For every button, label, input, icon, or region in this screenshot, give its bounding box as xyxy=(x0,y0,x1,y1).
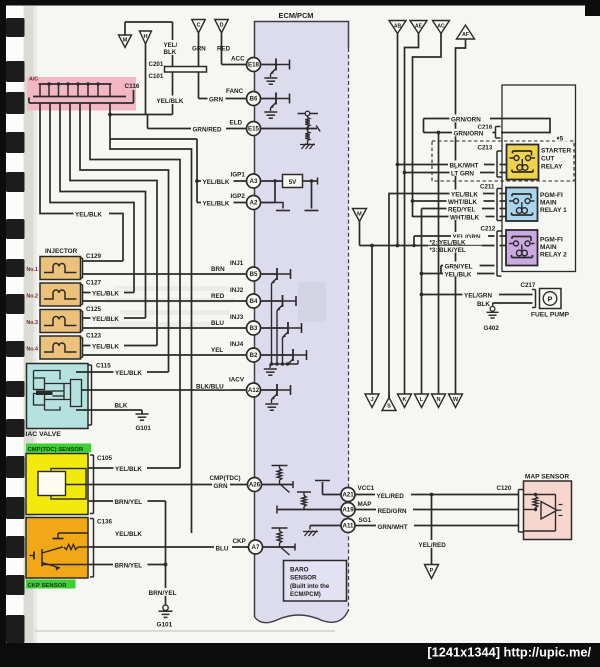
ECM/PCM panel xyxy=(255,11,349,623)
connector C116 (A/C junction, pink highlight) xyxy=(27,77,140,111)
label G101 (IAC) xyxy=(136,425,152,432)
triangle AE xyxy=(410,21,427,34)
svg-text:FUEL PUMP: FUEL PUMP xyxy=(531,312,570,319)
label CKP xyxy=(231,536,249,545)
label *2: YEL/BLK xyxy=(428,238,482,247)
svg-text:C105: C105 xyxy=(97,455,113,462)
svg-text:P: P xyxy=(430,568,434,574)
wire WHT/BLK2 relay1 xyxy=(413,216,507,218)
wire CKP BLU to A7 xyxy=(88,546,249,548)
svg-text:YEL: YEL xyxy=(211,347,223,354)
label YEL/BLK C123 xyxy=(91,342,125,351)
svg-text:BLK/WHT: BLK/WHT xyxy=(450,162,479,169)
svg-text:C: C xyxy=(196,23,200,29)
label LT GRN xyxy=(450,169,481,178)
wire YEL/BLK C116 pin7 to CKP sensor xyxy=(110,103,192,533)
label IGP2 xyxy=(231,193,246,200)
pin A3 xyxy=(247,174,261,188)
label BLK/WHT xyxy=(448,161,484,170)
wire YEL/RED branch to P xyxy=(431,495,433,565)
svg-text:YEL/BLK: YEL/BLK xyxy=(203,179,230,186)
svg-text:CKP SENSOR: CKP SENSOR xyxy=(28,583,68,589)
label GRN (FANC wire) xyxy=(208,95,226,104)
svg-text:FANC: FANC xyxy=(226,88,244,95)
wire YEL/BLK C116 pin6 to CMP sensor xyxy=(90,103,180,468)
label G402 xyxy=(484,325,500,332)
svg-text:YEL/BLK: YEL/BLK xyxy=(92,344,119,351)
scan border top bar xyxy=(0,0,600,6)
label IAC VALVE xyxy=(26,431,62,438)
label FUEL PUMP xyxy=(531,312,570,319)
wire GRN/YEL relay2 xyxy=(441,266,495,274)
wire YEL/BLK C116 pin5 to IAC valve xyxy=(80,103,169,372)
injector No.3 (C125) xyxy=(40,310,81,333)
wire RED/YEL relay1 xyxy=(422,208,507,210)
svg-text:C129: C129 xyxy=(86,253,102,260)
triangle M (mid) xyxy=(353,209,367,246)
wire CKP BRN/YEL xyxy=(88,564,166,566)
wire CMP GRN to A26 xyxy=(88,484,248,486)
label RED xyxy=(210,292,229,301)
label CKP SENSOR xyxy=(26,580,76,590)
svg-text:GRN/RED: GRN/RED xyxy=(193,127,222,134)
label INJECTOR xyxy=(45,248,78,255)
wire GRN/ORN upper loop xyxy=(424,119,551,133)
op ECM injector drivers (B5-B2) xyxy=(261,268,307,375)
svg-text:C101: C101 xyxy=(149,73,164,80)
scan top-right notch xyxy=(585,0,600,16)
svg-text:GRN: GRN xyxy=(209,97,223,104)
svg-text:INJ1: INJ1 xyxy=(230,260,244,267)
label BRN/YEL CKP xyxy=(113,561,148,570)
wire YEL/BLK C116 pin1 to No.1 injector xyxy=(40,103,123,261)
wire GRN/RED to E15 xyxy=(148,115,247,129)
label MAP xyxy=(358,501,372,508)
pin A7 xyxy=(249,540,263,554)
label YEL/BLK CKP xyxy=(114,529,148,538)
svg-text:A2: A2 xyxy=(250,200,258,207)
svg-text:BRN/YEL: BRN/YEL xyxy=(115,563,143,570)
svg-text:YEL/GRN: YEL/GRN xyxy=(464,292,492,299)
label YEL/BLK IGP1 xyxy=(201,177,234,186)
label C115 xyxy=(96,363,111,370)
label YEL/GRN fuel pump xyxy=(463,290,500,299)
svg-text:A12: A12 xyxy=(248,387,260,394)
label BRN xyxy=(210,265,229,274)
svg-text:No.1: No.1 xyxy=(26,267,38,273)
wire SG1 GRN/WHT xyxy=(355,525,519,527)
label INJ1 xyxy=(229,259,248,268)
svg-text:GRN/WHT: GRN/WHT xyxy=(378,524,408,531)
pin A19 xyxy=(341,503,355,517)
svg-text:G402: G402 xyxy=(484,325,500,332)
connector bracket C125 xyxy=(80,311,83,331)
wire YEL/GRN relay2 xyxy=(412,236,506,247)
svg-text:L: L xyxy=(420,397,424,403)
label C216 xyxy=(478,124,493,131)
svg-text:BLK/BLU: BLK/BLU xyxy=(196,384,224,391)
wire VCC1 YEL/RED xyxy=(355,493,519,497)
connector C120 xyxy=(519,490,524,533)
fuel pump xyxy=(540,289,562,309)
label VCC1 xyxy=(358,485,375,492)
svg-text:B6: B6 xyxy=(250,96,258,103)
label GRN/ORN (lower) xyxy=(452,129,493,138)
svg-text:YEL/BLK: YEL/BLK xyxy=(75,212,102,219)
svg-text:H: H xyxy=(143,34,147,40)
svg-text:C115: C115 xyxy=(96,363,111,370)
wire IACV BLK/BLU to A12 xyxy=(82,389,247,391)
svg-text:C213: C213 xyxy=(478,145,493,152)
pin A12 xyxy=(247,383,261,397)
svg-text:RED: RED xyxy=(217,46,231,53)
svg-text:K: K xyxy=(402,397,406,403)
svg-text:E18: E18 xyxy=(248,62,260,69)
svg-text:BLU: BLU xyxy=(216,546,229,553)
svg-text:CMP(TDC) SENSOR: CMP(TDC) SENSOR xyxy=(28,447,84,453)
label WHT/BLK2 relay1 xyxy=(449,213,486,222)
connector C211 xyxy=(497,189,502,221)
wire IGP2 to A2 xyxy=(197,202,247,204)
svg-text:MAIN: MAIN xyxy=(540,244,557,251)
op ECM VCC1 pull (A21) xyxy=(315,481,341,495)
relay block outline xyxy=(502,85,576,272)
wire YEL/BLK relay2 low xyxy=(420,272,495,276)
label BRN/YEL CMP xyxy=(113,497,148,506)
wire CMP BRN/YEL xyxy=(88,501,166,605)
left page edge white strip xyxy=(6,6,24,644)
pin B6 xyxy=(247,92,261,106)
svg-text:A26: A26 xyxy=(249,482,261,489)
wire AE to K vertical xyxy=(405,34,419,395)
label BLU xyxy=(214,544,232,553)
svg-text:M: M xyxy=(123,38,128,44)
svg-text:C212: C212 xyxy=(481,226,496,233)
svg-text:A21: A21 xyxy=(342,492,354,499)
PGM-FI main relay 1 (blue) xyxy=(506,188,538,222)
wire top YEL/BLK net horizontal xyxy=(125,22,173,35)
connector C212 xyxy=(497,231,502,276)
svg-text:RELAY 2: RELAY 2 xyxy=(540,252,567,259)
svg-text:YEL/BLK: YEL/BLK xyxy=(445,272,472,279)
triangle AF xyxy=(457,25,475,39)
label No.3 xyxy=(26,320,38,326)
triangle H xyxy=(140,31,152,44)
triangle K (bottom) xyxy=(398,394,412,408)
label C129 xyxy=(86,253,102,260)
label BLK xyxy=(113,401,130,410)
svg-text:BRN/YEL: BRN/YEL xyxy=(115,499,143,506)
svg-text:RELAY: RELAY xyxy=(541,164,563,171)
svg-text:INJ2: INJ2 xyxy=(230,287,244,294)
svg-text:P: P xyxy=(548,296,553,303)
starter cut relay (yellow) xyxy=(507,145,539,180)
triangle AC xyxy=(433,21,450,34)
label No.1 xyxy=(26,267,38,273)
svg-text:AF: AF xyxy=(462,32,469,38)
op ECM ACC driver (E18) xyxy=(261,59,290,85)
label INJ2 xyxy=(229,286,248,295)
svg-text:BRN: BRN xyxy=(211,266,225,273)
label YEL/BLK (top, two lines) xyxy=(162,40,181,56)
triangle D xyxy=(215,20,229,34)
ground G101 (sensors) xyxy=(159,605,173,617)
wire INJ2 RED to ECM xyxy=(83,300,247,302)
pin A26 xyxy=(248,478,262,492)
wire WHT/BLK relay1 xyxy=(411,199,506,203)
svg-text:E15: E15 xyxy=(248,126,260,133)
wire LT GRN to starter cut relay xyxy=(403,171,507,175)
pin A11 xyxy=(341,519,355,533)
node BRN/YEL junction xyxy=(164,563,168,567)
svg-text:G101: G101 xyxy=(136,425,152,432)
relay box *5 (dashed) xyxy=(432,141,574,181)
wire L extra dots xyxy=(420,209,422,395)
triangle C xyxy=(192,20,206,34)
wire No.2 top pin YEL/BLK xyxy=(83,292,135,294)
triangle N (bottom) xyxy=(432,394,446,408)
svg-text:A/C: A/C xyxy=(29,77,38,83)
svg-text:BLK: BLK xyxy=(115,403,128,410)
svg-text:LT GRN: LT GRN xyxy=(451,170,474,177)
triangle W (bottom) xyxy=(449,394,463,408)
label No.2 xyxy=(26,294,38,300)
label WHT/BLK relay1 xyxy=(447,197,484,206)
svg-text:BARO: BARO xyxy=(290,567,309,574)
bottom hairline xyxy=(35,630,335,632)
wire No.4 top pin YEL/BLK xyxy=(83,345,158,347)
wire IAC YEL/BLK xyxy=(76,371,169,373)
svg-text:C125: C125 xyxy=(86,306,102,313)
wire GRN/ORN lower to C216 xyxy=(424,131,496,135)
label C212 xyxy=(481,226,496,233)
triangle L (bottom) xyxy=(415,394,429,408)
wire YEL/BLK relay1 pin xyxy=(389,194,506,398)
svg-text:GRN/ORN: GRN/ORN xyxy=(451,117,481,124)
svg-text:5V: 5V xyxy=(289,179,297,186)
svg-text:CUT: CUT xyxy=(541,156,554,163)
wire MAP RED/GRN xyxy=(355,509,519,511)
svg-text:A19: A19 xyxy=(342,507,354,514)
wire YEL/BLK branch to IGP1/IGP2 xyxy=(110,139,197,203)
svg-text:MAIN: MAIN xyxy=(540,200,557,207)
svg-text:M: M xyxy=(357,211,362,217)
label C105 xyxy=(97,455,113,462)
wire BLK fuel pump xyxy=(493,303,533,307)
svg-text:YEL/: YEL/ xyxy=(164,42,178,49)
svg-text:C211: C211 xyxy=(480,184,495,191)
wire INJ4 YEL to ECM xyxy=(83,354,247,356)
wire AF to W vertical xyxy=(456,39,466,394)
connector bracket C136 xyxy=(90,519,94,578)
svg-text:INJECTOR: INJECTOR xyxy=(45,248,78,255)
label YEL/BLK C127 xyxy=(91,289,125,298)
label No.4 xyxy=(26,347,38,353)
svg-text:YEL/RED: YEL/RED xyxy=(377,493,405,500)
wire GRN C to B6 FANC xyxy=(199,33,247,99)
wire No.3 top pin YEL/BLK xyxy=(83,317,146,319)
wire H to YEL/BLK net xyxy=(145,44,147,115)
wire YEL/GRN to fuel pump xyxy=(420,293,533,297)
label GRN xyxy=(212,481,230,490)
label YEL/BLK IGP2 xyxy=(201,199,234,208)
svg-text:S: S xyxy=(387,404,391,410)
op ECM IACV driver (A12) xyxy=(261,384,291,410)
label GRN (top) xyxy=(192,46,206,53)
label *5 xyxy=(555,134,569,145)
label BLK/BLU xyxy=(195,382,232,391)
wire YEL/BLK C116 pin2 to No.2 injector xyxy=(50,103,134,293)
wire BLK/WHT to starter cut relay xyxy=(396,163,507,167)
op ECM 5V regulator (A3/A2) xyxy=(247,175,319,211)
label RED/GRN xyxy=(376,507,413,516)
svg-text:YEL/BLK: YEL/BLK xyxy=(203,201,230,208)
wire C116 to splice (YEL/BLK) xyxy=(110,114,173,116)
wire RED D to E18 ACC xyxy=(222,33,247,65)
svg-text:CMP(TDC): CMP(TDC) xyxy=(210,475,241,482)
node IGP junction xyxy=(195,179,199,183)
wire YEL/BLK C116 pin3 to No.3 injector xyxy=(60,103,146,318)
label GRN/RED xyxy=(191,125,226,134)
pin A21 xyxy=(341,488,355,502)
label C211 xyxy=(480,184,495,191)
svg-text:ELD: ELD xyxy=(230,120,243,127)
BARO sensor box xyxy=(284,561,347,602)
wire IGP1 to A3 xyxy=(197,180,247,182)
label ACC xyxy=(231,56,245,63)
label CMP(TDC) SENSOR xyxy=(26,444,91,454)
wire INJ1 BRN to ECM xyxy=(83,273,247,275)
triangle M (top) xyxy=(119,35,132,48)
connector C213 xyxy=(497,151,502,177)
label C127 xyxy=(86,280,102,287)
CMP sensor box (C105) xyxy=(26,454,88,515)
label STARTER CUT RELAY xyxy=(541,148,572,171)
triangle S (bottom) xyxy=(382,394,396,411)
svg-text:A3: A3 xyxy=(250,178,258,185)
watermark URL xyxy=(427,645,591,660)
svg-text:ECM/PCM: ECM/PCM xyxy=(279,11,314,20)
svg-text:GRN: GRN xyxy=(192,46,206,53)
sprocket blocks xyxy=(6,18,25,643)
label YEL/BLK IAC xyxy=(114,368,148,377)
wire YEL/BLK C116 pin4 to No.4 injector xyxy=(70,103,157,346)
svg-text:SENSOR: SENSOR xyxy=(290,575,317,582)
wire CMP YEL/BLK xyxy=(88,467,180,469)
pin B3 xyxy=(247,321,261,335)
svg-text:C127: C127 xyxy=(86,280,102,287)
PGM-FI main relay 2 (violet) xyxy=(506,230,538,266)
svg-text:RELAY 1: RELAY 1 xyxy=(540,207,567,214)
label YEL/BLK relay1 xyxy=(450,190,484,199)
wire AB down xyxy=(397,34,399,246)
CKP sensor box (C136) xyxy=(26,518,88,579)
svg-text:BLK: BLK xyxy=(477,301,490,308)
svg-text:*2: YEL/BLK: *2: YEL/BLK xyxy=(430,239,467,246)
connector C201/C101 splice bars xyxy=(165,67,207,73)
label RED/YEL relay1 xyxy=(447,205,483,214)
svg-text:BRN/YEL: BRN/YEL xyxy=(149,590,177,597)
svg-text:YEL/BLK: YEL/BLK xyxy=(115,370,142,377)
label YEL/RED xyxy=(375,492,411,501)
label PGM-FI MAIN RELAY 2 xyxy=(540,237,567,259)
label C123 xyxy=(86,333,102,340)
injector No.1 (C129) xyxy=(40,257,81,280)
label GRN/YEL xyxy=(443,262,480,271)
node C116 output junction xyxy=(108,113,112,117)
svg-text:C217: C217 xyxy=(521,282,536,289)
label PGM-FI MAIN RELAY 1 xyxy=(540,192,567,214)
label C101 xyxy=(149,73,164,80)
label BRN/YEL (ground) xyxy=(147,588,181,597)
svg-text:GRN/YEL: GRN/YEL xyxy=(445,263,473,270)
label INJ4 xyxy=(229,340,248,349)
svg-text:A7: A7 xyxy=(252,544,260,551)
triangle J (bottom) xyxy=(365,394,379,408)
svg-text:G101: G101 xyxy=(157,622,173,629)
label BLK fuel xyxy=(476,299,493,308)
svg-text:INJ3: INJ3 xyxy=(230,314,244,321)
IAC valve (C115) xyxy=(27,364,89,429)
svg-text:CKP: CKP xyxy=(233,538,246,545)
svg-text:B2: B2 xyxy=(250,352,258,359)
svg-text:J: J xyxy=(370,397,373,403)
pin A2 xyxy=(247,196,261,210)
wire N vertical xyxy=(438,133,440,395)
svg-text:No.2: No.2 xyxy=(26,294,38,300)
svg-text:GRN/ORN: GRN/ORN xyxy=(454,131,484,138)
svg-text:ECM/PCM): ECM/PCM) xyxy=(290,591,321,598)
svg-text:B4: B4 xyxy=(250,298,258,305)
svg-text:YEL/BLK: YEL/BLK xyxy=(157,98,184,105)
connector C216 xyxy=(496,127,501,139)
svg-text:B5: B5 xyxy=(250,271,258,278)
injector No.2 (C127) xyxy=(40,283,81,306)
svg-text:A11: A11 xyxy=(342,523,354,530)
connector bracket C115 xyxy=(88,365,92,425)
label YEL/BLK relay2 low xyxy=(443,270,477,279)
label C125 xyxy=(86,306,102,313)
label IGP1 xyxy=(231,172,246,179)
label MAP SENSOR xyxy=(525,473,569,480)
label CMP(TDC) xyxy=(208,473,247,482)
wire No.1 top pin YEL/BLK xyxy=(83,260,124,262)
svg-text:[1241x1344] http://upic.me/: [1241x1344] http://upic.me/ xyxy=(427,645,591,660)
label GRN/ORN (upper) xyxy=(450,115,491,124)
label YEL/BLK (below splice) xyxy=(155,96,186,106)
label YEL/GRN relay2 xyxy=(451,232,488,241)
label C213 xyxy=(478,145,493,152)
pin B4 xyxy=(247,294,261,308)
wire J vertical xyxy=(371,246,373,395)
pin B2 xyxy=(247,348,261,362)
svg-text:C123: C123 xyxy=(86,333,102,340)
svg-text:*3: BLK/YEL: *3: BLK/YEL xyxy=(430,247,466,254)
connector bracket C105 xyxy=(90,455,94,514)
svg-text:INJ4: INJ4 xyxy=(230,341,244,348)
wire YEL/BLK page link (M/J/AB) to relay2 xyxy=(360,244,507,248)
label GRN/WHT xyxy=(376,523,414,532)
svg-text:C136: C136 xyxy=(97,519,113,526)
svg-text:BLK: BLK xyxy=(164,49,177,56)
svg-text:WHT/BLK: WHT/BLK xyxy=(450,214,479,221)
label C120 xyxy=(497,485,512,492)
svg-text:RED/GRN: RED/GRN xyxy=(378,508,407,515)
label YEL/BLK CMP xyxy=(114,464,148,473)
wire INJ3 BLU to ECM xyxy=(83,327,247,329)
connector bracket C127 xyxy=(80,285,83,305)
label YEL/RED branch xyxy=(417,540,450,549)
